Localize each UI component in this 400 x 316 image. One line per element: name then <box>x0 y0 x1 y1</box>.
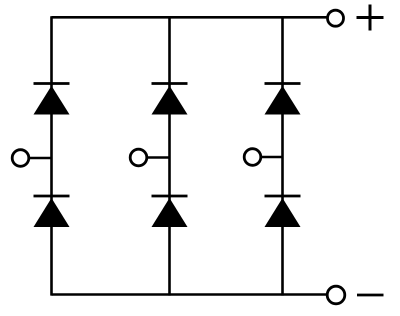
label minus sign <box>357 294 384 297</box>
wire AC stub phase B <box>148 156 170 159</box>
terminal phase B <box>130 149 147 166</box>
diode D2 lower leg 3 <box>265 196 301 227</box>
wire AC stub phase A <box>30 157 52 160</box>
terminal DC negative <box>327 286 345 304</box>
diode D5 upper leg 3 <box>265 84 301 115</box>
diode D1 upper leg 1 <box>34 84 70 115</box>
wire AC stub phase C <box>262 156 283 159</box>
terminal DC positive <box>328 10 344 26</box>
terminal phase A <box>12 150 29 167</box>
wire top rail (+ bus) <box>52 16 327 19</box>
label plus sign <box>357 5 384 31</box>
diode D4 lower leg 1 <box>34 196 70 227</box>
wire leg 1 vertical <box>50 16 53 295</box>
terminal phase C <box>244 149 261 166</box>
diode D3 upper leg 2 <box>152 84 188 115</box>
wire bottom rail (- bus) <box>52 293 327 296</box>
wire leg 2 vertical <box>168 16 171 295</box>
wire leg 3 vertical <box>281 16 284 295</box>
diode D6 lower leg 2 <box>152 196 188 227</box>
